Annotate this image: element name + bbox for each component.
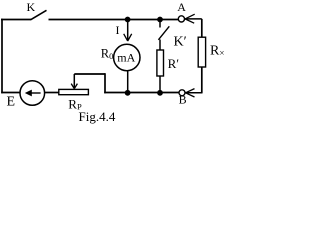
- current arrow I: [124, 21, 132, 41]
- svg-text:R′: R′: [168, 56, 180, 71]
- junction dot bottom R-prime branch: [157, 90, 163, 96]
- wire bottom main segment: [104, 92, 179, 94]
- switch K-prime blade: [158, 26, 169, 40]
- wire top main segment: [49, 19, 179, 21]
- wire mA to bottom: [127, 71, 129, 94]
- svg-text:R0: R0: [101, 47, 114, 61]
- svg-text:A: A: [177, 0, 186, 14]
- svg-text:E: E: [7, 95, 16, 110]
- wire probe A down to RX: [201, 19, 203, 37]
- resistor R-prime: [157, 50, 164, 76]
- resistor RX: [198, 37, 205, 67]
- wire bottom-left to E: [1, 92, 20, 94]
- rheostat RP: [59, 89, 89, 94]
- wire R-prime to bottom: [159, 76, 161, 93]
- terminal B: [179, 90, 185, 96]
- wire R-prime branch top stub: [159, 20, 161, 28]
- switch K blade: [31, 10, 47, 19]
- junction dot top mA branch: [125, 17, 131, 23]
- svg-text:K: K: [27, 0, 36, 14]
- wire wiper link horizontal: [74, 73, 105, 75]
- rheostat wiper arrow: [71, 74, 77, 89]
- terminal A: [178, 16, 184, 22]
- wire K-prime to R-prime stub: [159, 40, 161, 51]
- wire E to RP: [45, 92, 59, 94]
- junction dot bottom mA branch: [125, 90, 131, 96]
- svg-text:B: B: [179, 93, 187, 107]
- battery source E: [20, 81, 45, 106]
- wire left vertical: [1, 19, 3, 94]
- wire wiper link vertical: [104, 73, 106, 93]
- probe arrow at B: [186, 89, 203, 97]
- milliammeter mA: [114, 44, 140, 70]
- wire top-left segment: [1, 19, 31, 21]
- wire RX down to probe B: [201, 67, 203, 93]
- svg-text:R×: R×: [210, 43, 224, 58]
- svg-text:mA: mA: [117, 51, 135, 65]
- svg-text:Fig.4.4: Fig.4.4: [79, 109, 116, 124]
- probe arrow at A: [185, 14, 202, 23]
- junction dot top R-prime branch: [157, 17, 163, 23]
- svg-text:K′: K′: [174, 35, 187, 50]
- svg-text:I: I: [116, 23, 120, 37]
